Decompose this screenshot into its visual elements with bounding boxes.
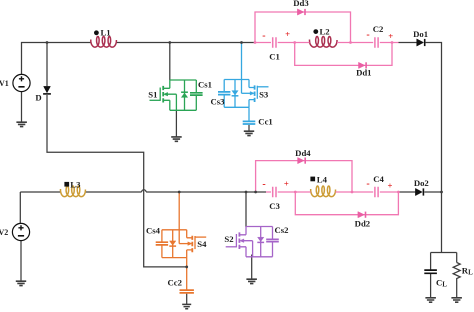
svg-text:Cc2: Cc2 xyxy=(168,278,182,288)
svg-text:L1: L1 xyxy=(101,28,111,38)
svg-text:Dd1: Dd1 xyxy=(356,67,371,77)
svg-text:Cc1: Cc1 xyxy=(258,117,272,127)
svg-text:+: + xyxy=(388,31,393,41)
svg-text:Cs4: Cs4 xyxy=(146,226,161,236)
svg-text:-: - xyxy=(262,179,265,190)
svg-text:+: + xyxy=(284,179,289,189)
svg-text:-: - xyxy=(366,29,369,40)
svg-text:V2: V2 xyxy=(0,228,8,237)
svg-text:Cs3: Cs3 xyxy=(211,97,226,107)
svg-text:L4: L4 xyxy=(317,175,328,185)
svg-text:+: + xyxy=(388,181,393,191)
svg-text:Cs2: Cs2 xyxy=(275,225,289,235)
svg-text:Dd2: Dd2 xyxy=(355,219,370,229)
svg-text:-: - xyxy=(262,31,265,42)
svg-text:Do2: Do2 xyxy=(414,178,429,188)
svg-text:C2: C2 xyxy=(373,24,384,34)
svg-text:Dd4: Dd4 xyxy=(295,148,311,158)
svg-text:Cs1: Cs1 xyxy=(198,80,212,90)
svg-text:C4: C4 xyxy=(373,174,384,184)
svg-text:Do1: Do1 xyxy=(413,29,428,39)
svg-text:C3: C3 xyxy=(269,201,280,211)
svg-text:S3: S3 xyxy=(259,89,269,99)
svg-text:D: D xyxy=(35,93,41,103)
svg-text:+: + xyxy=(285,29,290,39)
svg-text:V1: V1 xyxy=(0,79,9,88)
svg-text:L3: L3 xyxy=(70,179,81,189)
svg-text:C1: C1 xyxy=(269,52,280,62)
svg-text:-: - xyxy=(366,178,369,189)
svg-text:Dd3: Dd3 xyxy=(293,0,309,8)
svg-text:S4: S4 xyxy=(197,239,207,249)
svg-text:S1: S1 xyxy=(148,90,157,100)
svg-text:L2: L2 xyxy=(320,27,330,37)
svg-text:S2: S2 xyxy=(224,234,233,244)
